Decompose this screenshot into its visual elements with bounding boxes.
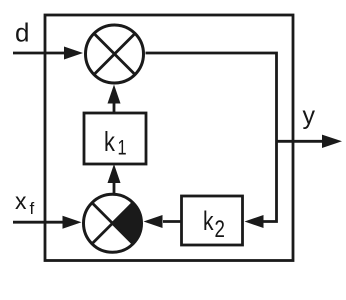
svg-text:k: k <box>203 207 214 237</box>
svg-text:y: y <box>303 102 316 130</box>
svg-text:1: 1 <box>118 136 127 159</box>
svg-text:f: f <box>30 199 35 218</box>
svg-text:2: 2 <box>215 216 225 243</box>
svg-text:d: d <box>15 18 29 48</box>
svg-text:k: k <box>104 126 115 157</box>
svg-text:x: x <box>15 188 27 214</box>
